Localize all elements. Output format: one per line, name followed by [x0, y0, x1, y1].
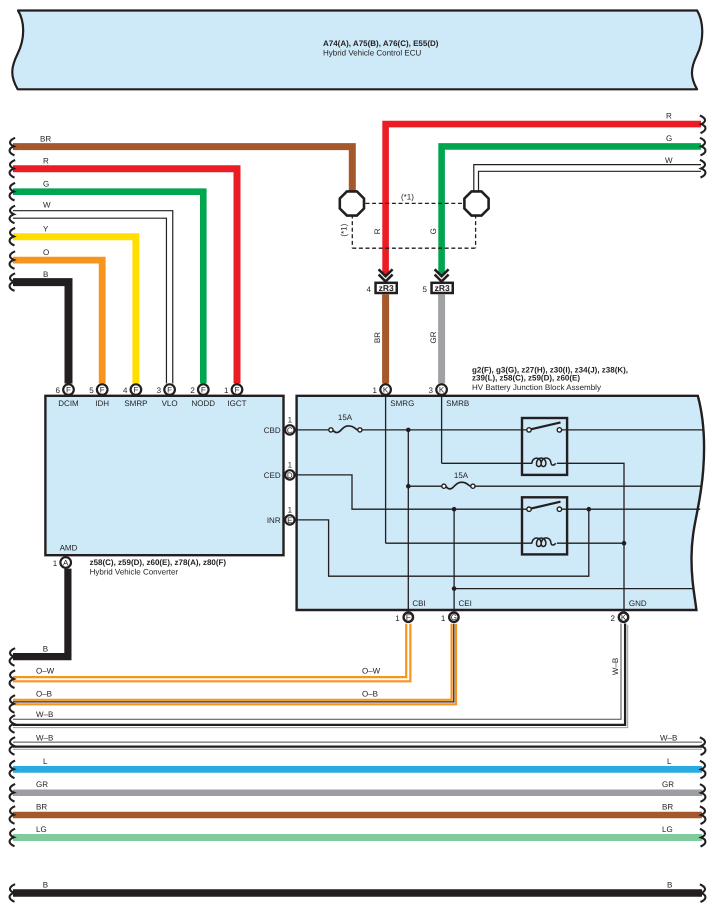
svg-text:SMRB: SMRB — [446, 399, 469, 408]
svg-text:15A: 15A — [338, 413, 353, 422]
svg-text:zR3: zR3 — [379, 283, 394, 293]
svg-text:IGCT: IGCT — [227, 399, 246, 408]
wire W pair from ECU (right) to shield octagon — [474, 165, 701, 194]
svg-text:CBD: CBD — [264, 426, 281, 435]
break symbol O left — [10, 251, 16, 269]
break symbol GR right — [700, 784, 706, 802]
break symbol BR left — [10, 138, 16, 156]
svg-text:F: F — [133, 386, 138, 395]
svg-text:IDH: IDH — [95, 399, 109, 408]
svg-text:GR: GR — [662, 780, 674, 789]
svg-text:F: F — [66, 386, 71, 395]
break symbol W left — [10, 206, 16, 224]
svg-text:O–W: O–W — [36, 667, 55, 676]
wire O to IDH (left) — [13, 260, 102, 383]
svg-text:1: 1 — [224, 386, 229, 395]
break symbol W-B band left — [10, 737, 16, 755]
svg-text:LG: LG — [662, 825, 673, 834]
junction dot fuse2 branch — [406, 484, 411, 489]
svg-text:F: F — [201, 386, 206, 395]
svg-text:NODD: NODD — [192, 399, 216, 408]
svg-text:GR: GR — [36, 780, 48, 789]
svg-text:3: 3 — [157, 386, 162, 395]
junction dot CBD/CBI — [406, 428, 411, 433]
fuse1 to relay1 switch — [362, 429, 529, 431]
svg-text:O–B: O–B — [362, 690, 378, 699]
svg-text:z39(L), z58(C), z59(D), z60(E): z39(L), z58(C), z59(D), z60(E) — [472, 373, 580, 382]
svg-text:O–W: O–W — [362, 667, 381, 676]
svg-text:K: K — [439, 386, 445, 395]
pin 3 SMRB (K) — [429, 384, 447, 395]
break symbol R right — [700, 116, 706, 134]
shield octagon left — [340, 191, 364, 215]
svg-text:5: 5 — [89, 386, 94, 395]
svg-text:6: 6 — [56, 386, 61, 395]
shield dashed line right vertical — [475, 215, 477, 249]
svg-text:A: A — [63, 559, 69, 568]
Hybrid Vehicle Control ECU banner — [12, 11, 702, 90]
break symbol L right — [700, 761, 706, 779]
svg-text:A74(A), A75(B), A76(C), E55(D): A74(A), A75(B), A76(C), E55(D) — [323, 39, 439, 48]
fuse 15A no2 — [442, 471, 475, 489]
relay 2 (SMRG) box — [522, 497, 567, 554]
svg-text:K: K — [621, 613, 627, 622]
svg-text:CEI: CEI — [459, 599, 472, 608]
svg-text:W: W — [665, 156, 673, 165]
wire band GR — [13, 790, 702, 797]
SMRG to relay2 coil — [386, 542, 533, 544]
branch to fuse2 — [408, 485, 442, 487]
wire W pair to VLO (left) — [13, 211, 173, 384]
CBD line to fuse — [297, 429, 331, 431]
svg-text:O: O — [43, 248, 49, 257]
svg-text:4: 4 — [367, 285, 372, 294]
break symbol B band left — [10, 884, 16, 902]
pin 2 NODD — [190, 384, 215, 408]
pin 1 CBD (C) — [285, 415, 294, 435]
pin 4 SMRP — [123, 384, 148, 408]
svg-text:B: B — [43, 645, 48, 654]
svg-text:Y: Y — [43, 225, 49, 234]
svg-text:G: G — [43, 180, 49, 189]
INR line — [297, 509, 589, 576]
svg-text:B: B — [667, 880, 672, 889]
break symbol R left — [10, 160, 16, 178]
relay2 switch to right edge — [559, 508, 700, 510]
relay 1 (SMRB) box — [522, 418, 567, 475]
svg-text:D: D — [287, 471, 293, 480]
svg-text:VLO: VLO — [162, 399, 178, 408]
pin 1 IGCT — [224, 384, 247, 408]
wire band B bottom — [13, 889, 702, 897]
svg-text:B: B — [43, 270, 48, 279]
break symbol W-B left — [10, 715, 16, 733]
break symbol O-B left — [10, 695, 16, 713]
relay1 coil — [532, 458, 556, 467]
svg-text:zR3: zR3 — [435, 283, 450, 293]
svg-text:G: G — [429, 228, 438, 234]
pin 6 DCIM — [56, 384, 80, 408]
svg-text:1: 1 — [373, 386, 378, 395]
wire band L — [13, 766, 702, 773]
pin 1 CED (D) — [285, 460, 294, 480]
svg-text:K: K — [383, 386, 389, 395]
wire band W-B full width — [13, 742, 702, 749]
connector zR3 pin5 box — [432, 283, 453, 293]
svg-text:Hybrid Vehicle Converter: Hybrid Vehicle Converter — [90, 568, 179, 577]
connector zR3 pin5 chevrons — [435, 269, 449, 281]
shield dashed line between octagons — [352, 202, 477, 204]
wire G from ECU (right) to connector zR3 pin 5 — [442, 146, 701, 274]
svg-text:W–B: W–B — [660, 733, 677, 742]
relay2 coil to GND vertical — [557, 542, 624, 544]
wire R from ECU (right) to connector zR3 pin 4 — [386, 124, 701, 274]
svg-text:2: 2 — [190, 386, 195, 395]
junction dot GND/relay2 coil — [622, 541, 627, 546]
svg-text:B: B — [43, 880, 48, 889]
relay2 switch — [527, 502, 562, 512]
pin 1 CBI (F) — [395, 613, 413, 623]
wire W-B from GND — [13, 624, 628, 728]
CED line — [297, 475, 529, 509]
svg-text:F: F — [167, 386, 172, 395]
svg-text:R: R — [373, 228, 382, 234]
wire band LG — [13, 834, 702, 841]
junction dot CED/CEI — [452, 507, 457, 512]
svg-text:R: R — [43, 157, 49, 166]
svg-text:1: 1 — [288, 460, 293, 469]
svg-text:E: E — [287, 516, 292, 525]
relay2 coil — [532, 538, 556, 547]
pin 1 SMRG (K) — [373, 384, 391, 395]
svg-text:W–B: W–B — [36, 733, 53, 742]
wire O-W from CBI — [13, 624, 410, 682]
break symbol LG left — [10, 829, 16, 847]
svg-text:GND: GND — [629, 599, 647, 608]
svg-text:AMD: AMD — [60, 544, 78, 553]
break symbol W-B band right — [700, 737, 706, 755]
svg-text:O–B: O–B — [36, 690, 52, 699]
svg-text:SMRG: SMRG — [390, 399, 414, 408]
svg-text:BR: BR — [36, 802, 47, 811]
junction dot relay2 switch — [587, 507, 592, 512]
svg-text:1: 1 — [288, 505, 293, 514]
pin 3 VLO — [157, 384, 178, 408]
svg-text:5: 5 — [423, 285, 428, 294]
svg-text:2: 2 — [610, 614, 615, 623]
SMRB net vertical — [441, 396, 443, 464]
svg-text:z58(C), z59(D), z60(E), z78(A): z58(C), z59(D), z60(E), z78(A), z80(F) — [90, 558, 227, 567]
break symbol O-W left — [10, 670, 16, 688]
wire R to IGCT (left) — [13, 169, 237, 384]
break symbol BR band right — [700, 806, 706, 824]
svg-text:HV Battery Junction Block Asse: HV Battery Junction Block Assembly — [472, 383, 601, 392]
svg-text:F: F — [100, 386, 105, 395]
pin 5 IDH — [89, 384, 109, 408]
relay1 switch to right edge — [559, 429, 703, 431]
wire BR from zR3 to SMRG — [382, 294, 389, 383]
break symbol BR band left — [10, 806, 16, 824]
svg-text:1: 1 — [395, 614, 400, 623]
svg-text:F: F — [406, 613, 411, 622]
svg-text:(*1): (*1) — [401, 193, 414, 202]
junction dot CEI branch — [452, 586, 457, 591]
pin 2 GND (K) — [610, 613, 628, 623]
svg-text:(*1): (*1) — [340, 223, 349, 236]
svg-text:1: 1 — [441, 614, 446, 623]
svg-text:1: 1 — [53, 559, 58, 568]
break symbol W right — [700, 160, 706, 178]
shield dashed line left vertical — [351, 215, 353, 249]
wire band BR — [13, 812, 702, 819]
CEI net vertical — [453, 509, 455, 611]
svg-text:L: L — [43, 757, 48, 766]
wire B from AMD — [13, 569, 68, 657]
svg-text:SMRP: SMRP — [124, 399, 147, 408]
svg-text:W–B: W–B — [36, 710, 53, 719]
svg-text:BR: BR — [40, 134, 51, 143]
svg-text:BR: BR — [662, 802, 673, 811]
svg-text:GR: GR — [429, 331, 438, 343]
svg-text:4: 4 — [123, 386, 128, 395]
wire Y to SMRP (left) — [13, 237, 136, 384]
connector zR3 pin4 box — [376, 283, 397, 293]
connector zR3 pin4 chevrons — [379, 269, 393, 281]
fuse2 to right edge — [475, 485, 702, 487]
wire BR from ECU (left) — [13, 147, 352, 195]
svg-text:CED: CED — [264, 471, 281, 480]
SMRB to relay1 coil — [442, 462, 533, 464]
pin 1 INR (E) — [285, 505, 294, 525]
svg-text:L: L — [667, 757, 672, 766]
relay1 switch — [527, 422, 562, 432]
HV Battery Junction Block Assembly box — [297, 396, 704, 610]
relay1 coil to GND vertical — [557, 463, 624, 611]
shield dashed line bottom — [352, 247, 475, 249]
svg-text:BR: BR — [373, 332, 382, 343]
break symbol B bottom left — [10, 648, 16, 666]
pin 1 AMD (A) — [53, 557, 71, 568]
svg-text:1: 1 — [288, 415, 293, 424]
svg-text:DCIM: DCIM — [58, 399, 79, 408]
wire B to DCIM (left) — [13, 282, 69, 383]
break symbol L left — [10, 761, 16, 779]
CBI net vertical — [407, 430, 409, 611]
fuse 15A no1 — [329, 413, 362, 433]
CEI branch to right edge — [454, 588, 693, 590]
break symbol G right — [700, 138, 706, 156]
break symbol LG right — [700, 829, 706, 847]
svg-text:G: G — [666, 134, 672, 143]
shield octagon right — [464, 191, 488, 215]
Hybrid Vehicle Converter box — [45, 396, 283, 555]
svg-text:C: C — [287, 426, 293, 435]
wire G to NODD (left) — [13, 192, 203, 384]
svg-text:INR: INR — [267, 516, 281, 525]
wire GR from zR3 to SMRB — [438, 294, 445, 383]
svg-text:Hybrid Vehicle Control ECU: Hybrid Vehicle Control ECU — [323, 49, 421, 58]
break symbol B band right — [700, 884, 706, 902]
svg-text:W–B: W–B — [611, 658, 620, 675]
svg-text:F: F — [235, 386, 240, 395]
svg-text:3: 3 — [429, 386, 434, 395]
svg-text:LG: LG — [36, 825, 47, 834]
svg-text:G: G — [451, 613, 457, 622]
pin 1 CEI (G) — [441, 613, 459, 623]
break symbol G left — [10, 183, 16, 201]
SMRG net vertical — [385, 396, 387, 543]
break symbol B left — [10, 273, 16, 291]
wire O-B from CEI — [13, 624, 456, 705]
svg-text:R: R — [666, 111, 672, 120]
svg-text:CBI: CBI — [412, 599, 425, 608]
break symbol Y left — [10, 228, 16, 246]
svg-text:W: W — [43, 201, 51, 210]
svg-text:15A: 15A — [454, 471, 469, 480]
break symbol GR left — [10, 784, 16, 802]
